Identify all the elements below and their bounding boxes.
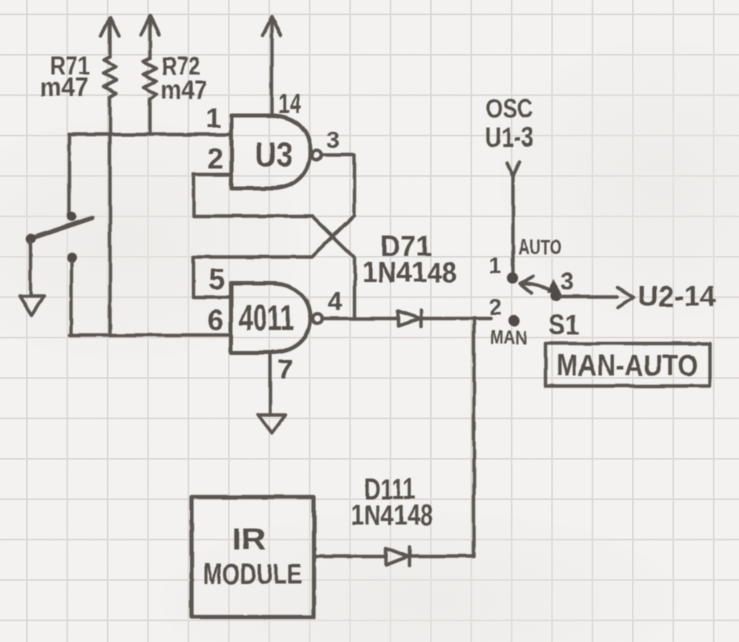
wire output4 to pin2 (cross-coupling): [194, 175, 355, 319]
wire pin6 bus: [70, 333, 232, 336]
svg-text:5: 5: [209, 264, 225, 296]
switch lever: [31, 218, 92, 239]
wire D71 cathode to S1 pin2: [421, 317, 491, 320]
wire R72 lower lead: [148, 99, 151, 135]
svg-text:MAN-AUTO: MAN-AUTO: [556, 350, 698, 383]
svg-text:3: 3: [560, 269, 573, 296]
svg-text:S1: S1: [549, 309, 580, 340]
S1 pin3 tick arrow: [547, 280, 561, 293]
wire pivot to ground: [29, 242, 32, 295]
switch top contact node: [67, 212, 77, 222]
nand gate U3 body: [232, 116, 311, 189]
arrow to U2-14: [618, 288, 634, 308]
svg-text:4: 4: [328, 286, 343, 316]
wire left drop to switch: [68, 135, 71, 214]
wire OSC to S1 pin1: [511, 176, 514, 272]
nand gate U3-b (4011) body: [231, 284, 311, 353]
wire output3 to pin5 (cross-coupling): [194, 155, 355, 297]
S1 pin2 node: [508, 315, 519, 326]
resistor R71: [104, 57, 117, 97]
svg-text:3: 3: [326, 127, 339, 154]
wire pin1 bus: [69, 133, 232, 136]
S1 wiper arrow: [520, 277, 552, 293]
svg-text:MODULE: MODULE: [203, 559, 302, 591]
wire IR module output: [314, 555, 386, 558]
svg-text:m47: m47: [161, 75, 208, 105]
wire vertical branch to IR module net: [472, 319, 475, 557]
diode D71: [398, 311, 421, 327]
S1 pin3 node: [550, 290, 561, 301]
svg-text:OSC: OSC: [486, 94, 533, 124]
svg-text:1: 1: [489, 253, 501, 278]
svg-text:1N4148: 1N4148: [362, 257, 457, 289]
pin 14 wire: [270, 22, 273, 116]
wire D111 cathode to vertical branch: [410, 555, 474, 558]
switch bottom contact node: [67, 253, 77, 263]
diode D111: [386, 548, 410, 566]
wire output4 to diode D71: [322, 317, 398, 320]
U3 output bubble: [312, 150, 322, 160]
power arrow pin 14: [263, 17, 281, 36]
svg-text:14: 14: [278, 88, 301, 119]
svg-text:m47: m47: [40, 72, 89, 102]
4011 output bubble: [313, 314, 323, 324]
power arrow above R72: [141, 17, 159, 59]
svg-text:2: 2: [490, 295, 502, 320]
svg-text:U2-14: U2-14: [638, 281, 716, 313]
svg-text:2: 2: [207, 144, 223, 176]
svg-text:MAN: MAN: [490, 328, 527, 349]
svg-text:7: 7: [277, 354, 293, 385]
wire R71 lower lead down to pin6 bus: [108, 97, 111, 335]
MAN-AUTO box: [546, 344, 711, 387]
pin 7 wire: [268, 353, 271, 415]
power arrow above R71: [101, 18, 119, 58]
svg-text:1N4148: 1N4148: [351, 500, 433, 532]
svg-text:6: 6: [207, 305, 223, 337]
wire bottom contact down to pin6 bus: [70, 262, 73, 335]
ground (pin 7): [258, 415, 286, 434]
wire S1 pin3 to U2-14: [561, 295, 617, 298]
svg-text:U3: U3: [256, 136, 293, 174]
svg-text:AUTO: AUTO: [518, 236, 562, 259]
resistor R72: [144, 58, 157, 99]
svg-text:4011: 4011: [239, 297, 294, 338]
ground (switch): [20, 297, 44, 316]
svg-text:U1-3: U1-3: [485, 122, 534, 153]
svg-text:IR: IR: [232, 523, 266, 556]
S1 pin1 node: [507, 272, 518, 283]
IR MODULE box: [192, 497, 315, 617]
svg-text:1: 1: [206, 103, 222, 134]
OSC input fork: [507, 162, 520, 176]
switch pivot node: [26, 234, 36, 244]
